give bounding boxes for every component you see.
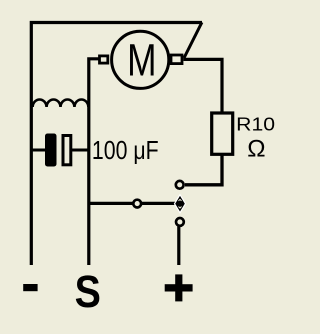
- switch lower contact circle: [176, 218, 184, 226]
- terminal label plus: [165, 274, 193, 301]
- wire: left rail to capacitor plate: [31, 149, 46, 152]
- svg-text:Ω: Ω: [247, 135, 265, 162]
- resistor label R10: [236, 115, 275, 136]
- switch wiper diamond: [175, 195, 186, 213]
- wire: resistor bottom to switch upper contact: [185, 154, 222, 185]
- svg-text:S: S: [75, 266, 101, 317]
- motor right terminal pin: [171, 55, 182, 64]
- wire: S rail with corner to motor left terminal: [89, 59, 99, 265]
- motor left terminal pin: [100, 56, 108, 63]
- wire: left rail and top rail (battery minus to motor top line): [31, 23, 202, 266]
- switch pole contact circle: [133, 200, 141, 208]
- wire: flag diagonal from top rail down to motor right terminal: [184, 22, 202, 58]
- svg-text:100 μF: 100 μF: [92, 136, 159, 164]
- resistor R10 body: [212, 113, 233, 154]
- switch upper contact circle: [176, 181, 184, 189]
- terminal label minus: [23, 284, 37, 291]
- wire: motor right terminal to resistor top: [184, 59, 223, 113]
- svg-text:R10: R10: [236, 115, 275, 136]
- wire: S rail branch to switch pole circle: [89, 202, 133, 205]
- capacitor C1 filled plate: [45, 134, 57, 167]
- inductor L coil: [33, 99, 89, 107]
- motor U1 body circle: [112, 31, 169, 88]
- terminal label S: [75, 266, 101, 317]
- wire: capacitor plate to S rail: [72, 149, 89, 152]
- motor U1 letter M: [127, 34, 156, 86]
- wire: pole circle to wiper diamond: [142, 202, 177, 205]
- svg-text:M: M: [127, 34, 156, 86]
- wire: lower contact to plus terminal stub: [177, 227, 180, 266]
- capacitor value label 100 uF: [92, 136, 159, 164]
- capacitor C1 hollow plate: [63, 136, 71, 165]
